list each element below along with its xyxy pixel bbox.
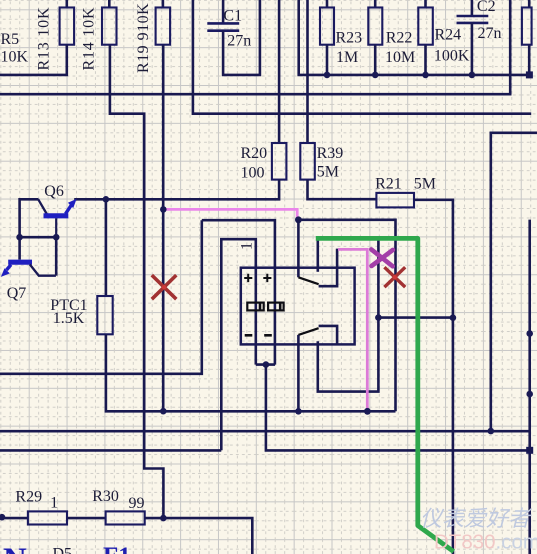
wire: battery negative link below box [256,363,275,366]
wire: R21 right corner long vertical to bottom [414,200,453,554]
Q7 collector diagonal to vertical [30,264,56,275]
resistor unlabeled top right [522,8,532,45]
wire: unlabeled resistor bottom to junction square [528,45,531,75]
svg-text:仪表爱好者: 仪表爱好者 [420,506,533,531]
svg-text:R39: R39 [317,145,344,162]
svg-text:R30: R30 [92,488,119,505]
junction pink at R19 wire [160,206,167,213]
wire: R29 to R30 [67,517,106,520]
svg-text:10M: 10M [385,49,415,66]
battery cell symbol 1 [247,303,263,311]
Q6 emitter with arrow [66,205,72,214]
junction at Q6 base [53,234,60,241]
capacitor C2 [457,16,489,23]
wire: top to unlabeled resistor right edge [528,0,531,8]
wire: top to R20 [278,0,281,143]
wire: top to R39 [306,0,309,143]
switch S2 bottom contact [319,326,338,345]
junction at R22 row [372,72,379,79]
svg-text:R24: R24 [435,27,462,44]
Q6 collector diagonal [38,199,47,214]
junction R14 chain on R30 row [160,515,167,522]
battery plus mark 2 [263,274,271,282]
svg-text:R13 10K: R13 10K [36,7,53,71]
svg-text:R29: R29 [15,488,42,505]
svg-text:DT830.com: DT830.com [434,531,537,554]
svg-text:F1: F1 [103,543,131,554]
wire: C2 top vertical [471,0,474,16]
wire: horizontal from right edge to vertical down to long junction [491,133,537,431]
Q7 base bar [8,260,32,265]
wire: top row to R13 [66,0,69,8]
svg-text:D5: D5 [53,546,73,554]
pink highlight wire from R19 to switch feed [163,209,297,218]
resistor R30 [106,511,145,524]
wire: battery cell2 feed from left [202,220,275,364]
wire: right edge vertical lower [528,220,531,554]
battery / switch box outline [241,268,355,345]
wire: top to R24 [424,0,427,8]
resistor R29 [28,511,67,524]
wire: bottom row left to corner up [0,449,221,452]
svg-text:1: 1 [239,242,256,250]
wire: mid vertical from battery row down left col [0,220,202,374]
resistor R22 [368,8,382,45]
svg-text:5M: 5M [414,175,436,192]
svg-text:C2: C2 [477,0,496,15]
wire: long bottom bus 431 [0,430,531,433]
svg-text:1.5K: 1.5K [53,310,85,327]
red X center dot right [393,275,397,279]
Q6 base bar [44,213,69,218]
junction square right edge lower [526,447,533,454]
wire: down from Q6 row to PTC1 [105,199,108,296]
wire: R20 bottom corner to Q6 row [74,180,279,200]
junction dot right edge mid [526,391,533,398]
wire: top to R19 [162,0,165,8]
wire: top to R22 [374,0,377,8]
wire: R14 bottom down, right, down to junction on R30 row [110,45,163,518]
switch S1 top blade [298,277,318,284]
Q6 base lead down [55,218,57,237]
battery cell symbol 2 [268,303,284,311]
wire: link between Q6 base and Q7 collector verticals [20,236,57,239]
wire: Q6 base vertical down to Q7 collector [55,237,58,276]
junction pink at switch feed [295,216,302,223]
wire: C1 left vertical top [222,0,225,23]
wire: S2 blade pivot down to bottom bus [297,335,300,411]
wire: top to R14 [108,0,111,8]
junction at C2 row [469,72,476,79]
wire: R22 bottom to junction row [374,45,377,75]
battery minus mark 2 [264,334,272,337]
wire: left edge to R29 [0,517,28,520]
magenta highlight from S1 contact to bottom bus [338,249,367,409]
wire: R23 bottom to junction row [326,45,329,75]
svg-text:5M: 5M [317,164,339,181]
wire: R39 bottom corner to R21 [308,180,377,200]
red X center dot left [162,285,166,289]
switch S1 top contact [319,249,338,287]
wire: top to R23 [326,0,329,8]
svg-text:N: N [3,542,27,554]
wire: R24 bottom to junction row [424,45,427,75]
wire: stub into box from green bus [316,239,319,272]
capacitor C1 [207,23,239,30]
transistor Q7 [1,262,56,277]
resistor R21 [376,193,414,208]
red X mark right [384,267,405,287]
wire: PTC1 bottom to bottom bus [106,334,396,411]
junction at left edge R29 row [0,514,5,521]
junction on return loop [375,314,382,321]
junction square at right end of top row [526,71,533,78]
purple X mark [371,249,393,266]
battery plus mark 1 [244,274,252,282]
svg-text:99: 99 [129,495,145,512]
svg-text:R20: R20 [241,145,268,162]
junction R19 wire on bottom bus [160,408,167,415]
wire: battery cell1 feed loop [221,239,256,450]
wire: Q6 row left corner down [20,199,39,259]
svg-text:1M: 1M [336,49,358,66]
svg-text:Q7: Q7 [7,285,27,302]
switch S2 bottom blade [298,328,318,335]
junction at R21 branch [450,314,457,321]
wire: return loop to R21 branch [378,316,453,319]
Q7 emitter with arrow [7,265,12,270]
junction magenta at bottom bus [364,408,371,415]
red X mark left [152,275,177,299]
wire: R19 bottom long vertical [162,45,165,412]
svg-text:100K: 100K [434,48,470,65]
junction S2 pivot at bottom bus [295,408,302,415]
wire: R13 bottom to left edge [0,45,67,75]
wire: switch feed row to corner down [298,220,395,411]
wire: C2 bottom to junction row [471,23,474,75]
resistor R20 [272,143,287,180]
svg-text:27n: 27n [227,33,251,50]
resistor PTC1 [97,296,112,334]
svg-text:100: 100 [241,165,265,182]
svg-text:R22: R22 [386,30,413,47]
green highlight path [316,238,454,551]
svg-text:R19 910K: R19 910K [135,3,152,73]
transistor Q6 [38,199,76,237]
junction dot right edge upper [526,330,533,337]
wire: vertical from top turning right into long mid bus [193,0,531,114]
svg-text:C1: C1 [223,8,242,25]
junction on bus 431 [488,428,495,435]
resistor R19 [156,8,171,45]
wire: from below-battery junction down and right to right edge [266,365,530,451]
svg-text:R23: R23 [336,30,363,47]
junction at R23 row [324,72,331,79]
svg-text:1: 1 [50,494,58,511]
wire: long bus y94 from left edge to right vertical up to top [0,0,510,94]
junction below battery [263,361,270,368]
svg-text:10K: 10K [1,49,29,66]
resistor R14 [102,8,117,45]
svg-text:R21: R21 [375,175,402,192]
junction at R24 row [422,72,429,79]
junction at Q7 base [16,234,23,241]
wire: R30 right to corner down to bottom edge [145,518,253,554]
wire: junction row right section [299,0,530,75]
resistor R39 [300,143,315,180]
wire: switch feed vertical into box [297,220,300,277]
resistor R13 [60,8,75,45]
svg-text:R14 10K: R14 10K [81,7,98,71]
wire: C1 bottom loop to right vertical [223,0,260,75]
battery minus mark 1 [245,334,253,337]
resistor R23 [320,8,334,45]
wire: below-box contact return loop [318,239,379,392]
svg-text:Q6: Q6 [44,183,64,200]
svg-text:R5: R5 [1,31,20,48]
svg-text:27n: 27n [478,25,502,42]
junction where PTC branch meets Q6 row [103,196,110,203]
resistor R24 [418,8,433,45]
